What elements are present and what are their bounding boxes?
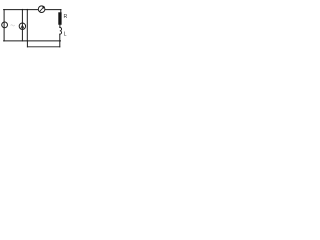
wire lower loop bottom bbox=[27, 46, 59, 48]
svg-text:R: R bbox=[64, 14, 68, 20]
wire branch 3 bbox=[26, 10, 28, 41]
inductor L bbox=[60, 27, 62, 34]
node junction top branch2 bbox=[22, 9, 23, 10]
wire bottom rail bbox=[4, 40, 61, 42]
current source I1 bbox=[2, 22, 8, 28]
label (faint) between sources bbox=[11, 25, 15, 26]
wire lower loop left drop bbox=[26, 41, 28, 47]
wire top rail bbox=[4, 9, 61, 11]
wire branch 2 bbox=[21, 10, 23, 41]
wire left branch bbox=[3, 10, 5, 41]
svg-text:L: L bbox=[64, 31, 67, 37]
resistor R bbox=[58, 12, 61, 24]
wire right branch top bbox=[60, 10, 62, 13]
wire lower loop right riser bbox=[59, 41, 61, 47]
wire R to L bbox=[59, 25, 61, 28]
arrow inside M1 bbox=[40, 7, 44, 12]
arrow inside I2 bbox=[21, 25, 24, 28]
meter M1 in top rail bbox=[38, 6, 45, 13]
current source I2 bbox=[19, 23, 25, 29]
wire L to bottom rail bbox=[59, 34, 61, 41]
node junction top branch3 bbox=[27, 9, 28, 10]
